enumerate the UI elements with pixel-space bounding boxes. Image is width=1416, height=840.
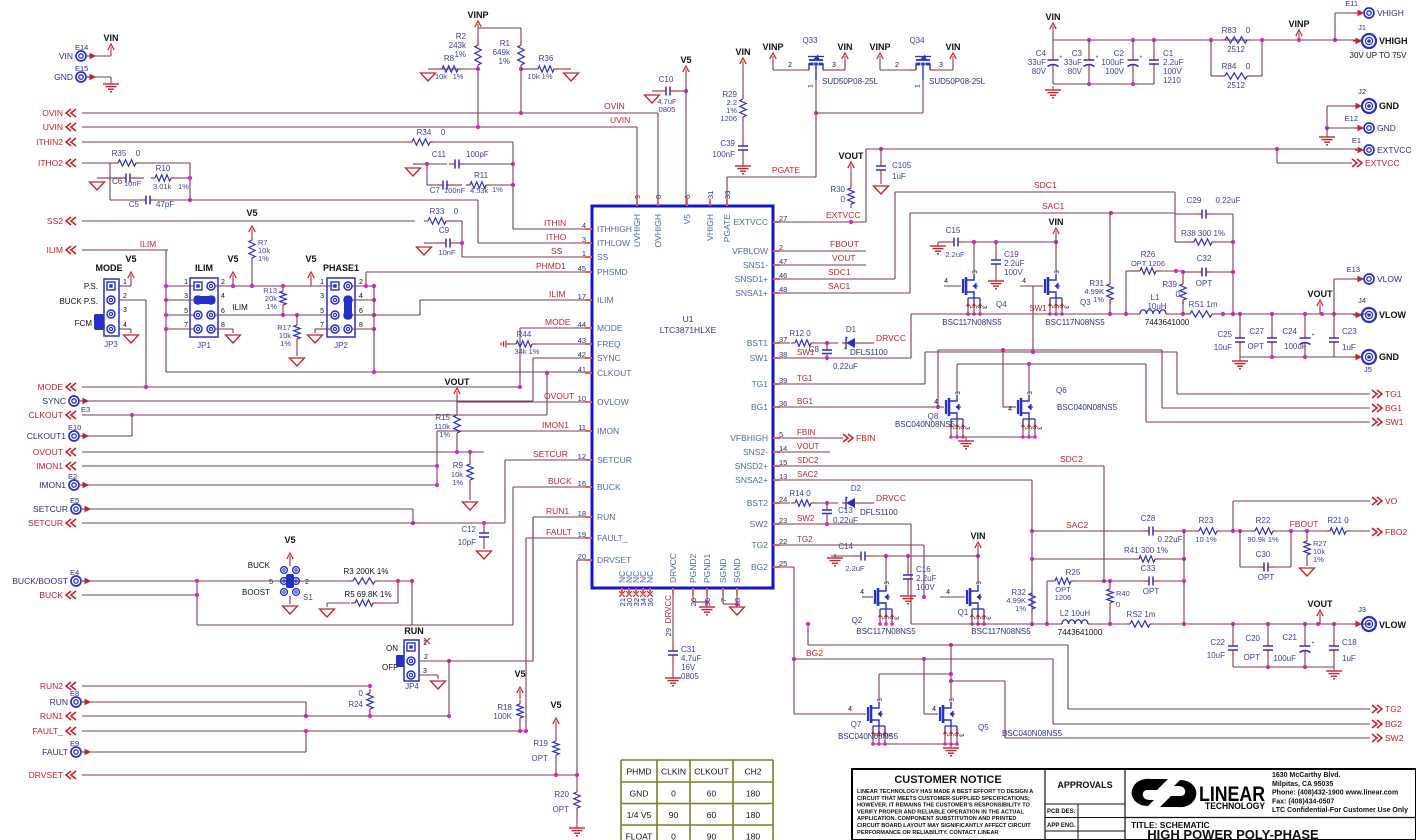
svg-text:BST1: BST1 <box>747 338 769 348</box>
svg-text:CH2: CH2 <box>744 767 761 777</box>
svg-text:BSC117N08NS5: BSC117N08NS5 <box>856 627 916 636</box>
svg-text:C30: C30 <box>1256 550 1271 559</box>
svg-text:2: 2 <box>424 654 428 661</box>
svg-text:100V: 100V <box>1163 67 1182 76</box>
svg-text:FBO2: FBO2 <box>1385 527 1407 537</box>
svg-text:VIN: VIN <box>1045 12 1060 22</box>
svg-text:BSC117N08NS5: BSC117N08NS5 <box>942 318 1002 327</box>
svg-text:7443641000: 7443641000 <box>1145 318 1190 327</box>
svg-text:V5: V5 <box>682 214 692 225</box>
svg-text:OPT: OPT <box>1248 342 1265 351</box>
svg-text:L2 10uH: L2 10uH <box>1060 609 1090 618</box>
svg-text:BUCK: BUCK <box>39 590 63 600</box>
svg-text:0: 0 <box>441 128 446 137</box>
svg-text:TG1: TG1 <box>751 379 768 389</box>
svg-text:C21: C21 <box>1282 633 1297 642</box>
svg-text:SS: SS <box>597 252 609 262</box>
svg-text:30V UP TO 75V: 30V UP TO 75V <box>1350 51 1408 60</box>
svg-text:ITHIN: ITHIN <box>544 218 566 228</box>
svg-text:Q1: Q1 <box>958 608 969 617</box>
svg-text:C9: C9 <box>439 226 450 235</box>
svg-text:FLOAT: FLOAT <box>626 832 653 840</box>
svg-text:SS2: SS2 <box>47 216 63 226</box>
svg-text:3: 3 <box>320 293 324 300</box>
svg-text:V5: V5 <box>305 254 316 264</box>
svg-text:P.S.: P.S. <box>84 282 98 291</box>
svg-text:RUN: RUN <box>50 697 68 707</box>
svg-text:R36: R36 <box>539 54 554 63</box>
svg-text:VHIGH: VHIGH <box>1379 36 1408 46</box>
svg-text:BG2: BG2 <box>806 648 823 658</box>
svg-text:0: 0 <box>671 789 676 799</box>
svg-text:0.22uF: 0.22uF <box>1216 196 1241 205</box>
svg-text:EXTVCC: EXTVCC <box>734 217 768 227</box>
svg-text:1%: 1% <box>439 430 450 439</box>
svg-text:RUN: RUN <box>404 626 424 636</box>
svg-text:1: 1 <box>808 84 815 88</box>
svg-text:SNS1-: SNS1- <box>743 260 768 270</box>
svg-text:100V: 100V <box>1004 268 1023 277</box>
svg-text:Fax: (408)434-0507: Fax: (408)434-0507 <box>1272 798 1334 805</box>
svg-text:Q4: Q4 <box>996 300 1007 309</box>
svg-text:SGND: SGND <box>718 558 728 583</box>
svg-text:180: 180 <box>746 810 760 820</box>
svg-text:BSC117N08NS5: BSC117N08NS5 <box>1045 318 1105 327</box>
svg-text:41: 41 <box>578 365 586 374</box>
svg-text:0: 0 <box>1176 290 1181 299</box>
svg-text:PERFORMANCE OR RELIABILITY. C: PERFORMANCE OR RELIABILITY. CONTACT LINE… <box>857 830 999 836</box>
svg-text:10k: 10k <box>435 72 447 81</box>
svg-text:VOUT: VOUT <box>1307 289 1333 299</box>
svg-text:4: 4 <box>944 278 948 285</box>
svg-text:NC: NC <box>645 571 655 583</box>
svg-text:VINP: VINP <box>467 10 488 20</box>
svg-text:100pF: 100pF <box>466 150 489 159</box>
svg-text:RS2 1m: RS2 1m <box>1127 610 1156 619</box>
svg-text:+: + <box>1312 641 1315 647</box>
svg-text:DRVCC: DRVCC <box>664 595 673 624</box>
svg-text:2: 2 <box>123 293 127 300</box>
svg-text:PHASE1: PHASE1 <box>323 263 359 273</box>
svg-text:5: 5 <box>320 308 324 315</box>
svg-text:0: 0 <box>136 149 141 158</box>
svg-text:R14 0: R14 0 <box>789 489 811 498</box>
svg-text:0.22uF: 0.22uF <box>833 362 858 371</box>
svg-text:FAULT_: FAULT_ <box>597 533 628 543</box>
svg-text:8: 8 <box>221 322 225 329</box>
svg-text:SW2: SW2 <box>750 519 769 529</box>
svg-text:+: + <box>1140 55 1143 61</box>
svg-text:BOOST: BOOST <box>242 588 270 597</box>
svg-text:3.01k: 3.01k <box>153 182 172 191</box>
svg-text:33uF: 33uF <box>1064 58 1082 67</box>
svg-text:CLKOUT: CLKOUT <box>29 410 63 420</box>
svg-text:RUN2: RUN2 <box>40 681 63 691</box>
svg-text:90: 90 <box>669 810 679 820</box>
svg-text:60: 60 <box>707 789 717 799</box>
svg-text:4.7uF: 4.7uF <box>681 654 702 663</box>
svg-text:SW1: SW1 <box>750 353 769 363</box>
svg-text:1%: 1% <box>258 254 269 263</box>
svg-text:1630 McCarthy Blvd.: 1630 McCarthy Blvd. <box>1272 772 1341 779</box>
svg-text:IMON1: IMON1 <box>36 461 63 471</box>
svg-text:VHIGH: VHIGH <box>705 214 715 241</box>
svg-text:2.2uF: 2.2uF <box>945 250 965 259</box>
svg-text:R30: R30 <box>830 185 845 194</box>
svg-text:GND: GND <box>1379 101 1400 111</box>
svg-text:SDC2: SDC2 <box>1060 454 1083 464</box>
svg-text:VINP: VINP <box>1288 19 1309 29</box>
svg-text:L1: L1 <box>1151 293 1160 302</box>
svg-text:V5: V5 <box>246 208 257 218</box>
svg-text:1%: 1% <box>498 57 510 66</box>
svg-text:VIN: VIN <box>103 33 118 43</box>
svg-text:C2: C2 <box>1114 49 1125 58</box>
svg-text:C18: C18 <box>1342 638 1357 647</box>
svg-text:BG1: BG1 <box>1385 403 1402 413</box>
svg-text:Q5: Q5 <box>978 723 989 732</box>
svg-text:BG1: BG1 <box>751 402 768 412</box>
svg-text:100K: 100K <box>493 712 512 721</box>
svg-text:R12 0: R12 0 <box>789 329 811 338</box>
svg-text:BUCK: BUCK <box>548 476 572 486</box>
svg-text:E15: E15 <box>75 64 88 73</box>
svg-text:1%: 1% <box>452 478 463 487</box>
svg-text:PGND2: PGND2 <box>688 553 698 583</box>
svg-text:LTC3871HLXE: LTC3871HLXE <box>660 325 717 335</box>
svg-text:OVLOW: OVLOW <box>597 397 629 407</box>
svg-text:1uF: 1uF <box>1342 343 1356 352</box>
svg-text:R34: R34 <box>417 128 432 137</box>
svg-text:0: 0 <box>1246 26 1251 35</box>
svg-text:3: 3 <box>123 307 127 314</box>
svg-text:DRVSET: DRVSET <box>597 555 631 565</box>
svg-text:JP1: JP1 <box>197 341 211 350</box>
svg-text:D1: D1 <box>846 325 857 334</box>
svg-text:1%: 1% <box>454 50 466 59</box>
svg-text:DFLS1100: DFLS1100 <box>860 508 898 517</box>
svg-text:C11: C11 <box>432 150 447 159</box>
svg-text:3: 3 <box>423 668 427 675</box>
svg-text:PGATE: PGATE <box>722 214 732 243</box>
svg-text:VIN: VIN <box>735 47 750 57</box>
svg-text:100nF: 100nF <box>712 150 735 159</box>
svg-text:DRVCC: DRVCC <box>876 493 906 503</box>
svg-text:VOUT: VOUT <box>832 253 856 263</box>
svg-text:EXTVCC: EXTVCC <box>1365 158 1399 168</box>
svg-text:SUD50P08-25L: SUD50P08-25L <box>929 77 986 86</box>
svg-text:2: 2 <box>359 279 363 286</box>
svg-text:47pF: 47pF <box>156 200 174 209</box>
svg-text:2.2uF: 2.2uF <box>1163 58 1184 67</box>
svg-text:C15: C15 <box>946 226 961 235</box>
svg-text:0: 0 <box>454 207 459 216</box>
svg-text:C29: C29 <box>1187 196 1202 205</box>
svg-text:10nF: 10nF <box>438 248 456 257</box>
svg-text:31: 31 <box>706 191 715 199</box>
svg-text:C16: C16 <box>916 565 931 574</box>
svg-text:29: 29 <box>664 628 673 636</box>
svg-text:TG1: TG1 <box>1385 389 1402 399</box>
svg-text:R3 200K 1%: R3 200K 1% <box>344 567 389 576</box>
svg-text:VIN: VIN <box>837 42 852 52</box>
svg-text:E12: E12 <box>1345 114 1358 123</box>
svg-text:PGND1: PGND1 <box>702 553 712 583</box>
svg-text:TG2: TG2 <box>797 535 813 544</box>
svg-text:4: 4 <box>1008 406 1012 413</box>
svg-text:100uF: 100uF <box>1101 58 1124 67</box>
svg-text:1: 1 <box>123 279 127 286</box>
svg-text:1%: 1% <box>266 302 277 311</box>
svg-text:C39: C39 <box>720 139 735 148</box>
svg-text:SW2: SW2 <box>797 514 815 523</box>
svg-text:0: 0 <box>359 689 364 698</box>
svg-text:SDC2: SDC2 <box>797 456 819 465</box>
svg-text:1%: 1% <box>1313 555 1324 564</box>
svg-text:0: 0 <box>1246 62 1251 71</box>
svg-text:1: 1 <box>184 279 188 286</box>
svg-text:1206: 1206 <box>720 114 737 123</box>
svg-text:R21 0: R21 0 <box>1327 516 1349 525</box>
svg-text:10uF: 10uF <box>1214 343 1232 352</box>
svg-text:R41 300 1%: R41 300 1% <box>1124 546 1168 555</box>
svg-text:VIN: VIN <box>59 51 73 61</box>
svg-text:U1: U1 <box>683 314 694 324</box>
svg-text:C6: C6 <box>112 177 123 186</box>
svg-text:SETCUR: SETCUR <box>28 518 63 528</box>
svg-text:E13: E13 <box>1347 265 1360 274</box>
svg-text:E4: E4 <box>70 568 79 577</box>
svg-text:7443641000: 7443641000 <box>1058 628 1103 637</box>
svg-text:MODE: MODE <box>597 323 623 333</box>
svg-text:C27: C27 <box>1249 327 1264 336</box>
svg-text:R1: R1 <box>500 39 511 48</box>
svg-text:R20: R20 <box>554 790 569 799</box>
svg-text:PHMD: PHMD <box>626 767 651 777</box>
svg-text:TG2: TG2 <box>751 540 768 550</box>
svg-text:SW2: SW2 <box>1385 733 1404 743</box>
svg-text:R9: R9 <box>453 461 464 470</box>
svg-text:BUCK: BUCK <box>597 482 621 492</box>
svg-text:36: 36 <box>646 598 655 606</box>
svg-text:EXTVCC: EXTVCC <box>1377 145 1411 155</box>
svg-text:OVIN: OVIN <box>42 108 63 118</box>
svg-text:DRVSET: DRVSET <box>29 770 63 780</box>
svg-text:R10: R10 <box>156 164 171 173</box>
svg-text:C7: C7 <box>430 186 441 195</box>
svg-text:80V: 80V <box>1068 67 1083 76</box>
svg-text:OPT: OPT <box>1258 573 1275 582</box>
svg-text:4.53k: 4.53k <box>470 186 489 195</box>
svg-text:2: 2 <box>221 279 225 286</box>
svg-text:Q2: Q2 <box>852 616 863 625</box>
svg-text:C28: C28 <box>1141 514 1156 523</box>
svg-text:ILIM: ILIM <box>549 289 566 299</box>
svg-text:OVIN: OVIN <box>604 101 625 111</box>
svg-text:BSC040N08NS5: BSC040N08NS5 <box>838 732 899 741</box>
svg-text:C20: C20 <box>1245 634 1260 643</box>
svg-text:OPT: OPT <box>1244 653 1261 662</box>
svg-text:R19: R19 <box>533 739 548 748</box>
svg-text:SUD50P08-25L: SUD50P08-25L <box>822 77 879 86</box>
svg-text:MODE: MODE <box>545 317 571 327</box>
svg-text:VINP: VINP <box>869 42 890 52</box>
svg-text:R39: R39 <box>1162 280 1177 289</box>
svg-text:2: 2 <box>305 579 309 586</box>
svg-text:90: 90 <box>707 832 717 840</box>
svg-text:OPT: OPT <box>532 754 549 763</box>
svg-text:UVIN: UVIN <box>610 115 630 125</box>
svg-text:4: 4 <box>932 706 936 713</box>
svg-text:SNSD2+: SNSD2+ <box>735 461 768 471</box>
svg-text:IMON1: IMON1 <box>542 420 569 430</box>
svg-text:C105: C105 <box>892 161 912 170</box>
svg-text:BSC117N08NS5: BSC117N08NS5 <box>971 627 1031 636</box>
svg-text:SNS2-: SNS2- <box>743 447 768 457</box>
svg-text:SS: SS <box>551 246 563 256</box>
svg-text:6: 6 <box>359 308 363 315</box>
svg-text:Q34: Q34 <box>909 36 925 45</box>
svg-text:1: 1 <box>915 84 922 88</box>
svg-text:ITHLOW: ITHLOW <box>597 238 630 248</box>
svg-text:4: 4 <box>934 399 938 406</box>
svg-text:GND: GND <box>1379 352 1400 362</box>
svg-text:10uH: 10uH <box>1147 302 1166 311</box>
svg-text:VLOW: VLOW <box>1379 620 1407 630</box>
svg-text:1/4 V5: 1/4 V5 <box>627 810 652 820</box>
svg-text:DRVCC: DRVCC <box>876 333 906 343</box>
svg-text:33uF: 33uF <box>1028 58 1046 67</box>
svg-text:CIRCUIT THAT MEETS CUSTOMER-SU: CIRCUIT THAT MEETS CUSTOMER-SUPPLIED SPE… <box>857 796 1030 802</box>
svg-text:OFF: OFF <box>382 663 398 672</box>
svg-text:E14: E14 <box>75 43 88 52</box>
svg-text:243k: 243k <box>449 41 467 50</box>
svg-text:BG2: BG2 <box>751 562 768 572</box>
svg-text:BG2: BG2 <box>1385 719 1402 729</box>
svg-text:V5: V5 <box>227 254 238 264</box>
svg-text:C32: C32 <box>1197 254 1212 263</box>
svg-text:649k: 649k <box>493 48 511 57</box>
svg-text:SW1: SW1 <box>797 348 815 357</box>
svg-text:4: 4 <box>1022 278 1026 285</box>
svg-text:FREQ: FREQ <box>597 339 621 349</box>
svg-text:IMON1: IMON1 <box>39 480 66 490</box>
svg-text:10 1%: 10 1% <box>1195 535 1217 544</box>
svg-text:CLKIN: CLKIN <box>661 767 686 777</box>
svg-text:RUN: RUN <box>597 512 615 522</box>
svg-text:60: 60 <box>707 810 717 820</box>
svg-text:ITHO: ITHO <box>546 232 567 242</box>
svg-text:80V: 80V <box>1032 67 1047 76</box>
svg-text:OPT: OPT <box>1143 587 1160 596</box>
svg-text:UVHIGH: UVHIGH <box>632 214 642 247</box>
svg-text:C24: C24 <box>1282 327 1297 336</box>
svg-text:J3: J3 <box>1358 605 1366 614</box>
svg-text:VIN: VIN <box>970 531 985 541</box>
svg-text:E5: E5 <box>70 496 79 505</box>
svg-text:OVOUT: OVOUT <box>544 391 574 401</box>
svg-text:VHIGH: VHIGH <box>1377 8 1404 18</box>
svg-text:GND: GND <box>630 789 649 799</box>
svg-text:C14: C14 <box>838 542 853 551</box>
svg-text:C23: C23 <box>1342 327 1357 336</box>
svg-text:R38 300 1%: R38 300 1% <box>1181 229 1225 238</box>
svg-text:8: 8 <box>359 322 363 329</box>
svg-text:ON: ON <box>386 644 398 653</box>
svg-text:RUN1: RUN1 <box>546 506 569 516</box>
svg-text:LTC Confidential-For Customer: LTC Confidential-For Customer Use Only <box>1272 807 1408 814</box>
svg-text:SYNC: SYNC <box>42 396 66 406</box>
svg-text:+: + <box>1060 55 1063 61</box>
svg-text:E8: E8 <box>70 689 79 698</box>
svg-text:VO: VO <box>1385 496 1398 506</box>
svg-text:CLKOUT1: CLKOUT1 <box>27 431 66 441</box>
svg-text:BUCK/BOOST: BUCK/BOOST <box>12 576 68 586</box>
svg-text:CLKOUT: CLKOUT <box>597 368 631 378</box>
svg-text:BSC040N08NS5: BSC040N08NS5 <box>1002 729 1063 738</box>
svg-text:R33: R33 <box>430 207 445 216</box>
svg-text:2: 2 <box>895 62 899 69</box>
svg-text:E10: E10 <box>68 423 81 432</box>
svg-text:PCB DES.: PCB DES. <box>1047 809 1076 815</box>
svg-text:BSC040N08NS5: BSC040N08NS5 <box>1057 403 1118 412</box>
svg-text:V5: V5 <box>284 535 295 545</box>
svg-text:R5 69.8K 1%: R5 69.8K 1% <box>344 590 391 599</box>
svg-text:BG1: BG1 <box>797 397 814 406</box>
svg-text:3: 3 <box>832 62 836 69</box>
svg-text:SDC1: SDC1 <box>1034 180 1057 190</box>
svg-text:C22: C22 <box>1210 638 1225 647</box>
svg-text:C3: C3 <box>1072 49 1083 58</box>
svg-text:APPROVALS: APPROVALS <box>1057 780 1112 790</box>
svg-text:2512: 2512 <box>1227 81 1245 90</box>
svg-text:FCM: FCM <box>75 319 93 328</box>
svg-text:EXTVCC: EXTVCC <box>826 210 860 220</box>
svg-text:DFLS1100: DFLS1100 <box>850 348 888 357</box>
svg-text:VOUT: VOUT <box>797 442 819 451</box>
svg-text:1%: 1% <box>1093 295 1104 304</box>
svg-text:R11: R11 <box>474 171 489 180</box>
svg-text:VIN: VIN <box>945 42 960 52</box>
svg-text:R24: R24 <box>348 700 363 709</box>
svg-text:RS1 1m: RS1 1m <box>1189 300 1218 309</box>
svg-text:TECHNOLOGY: TECHNOLOGY <box>1205 801 1266 812</box>
svg-text:C10: C10 <box>659 75 674 84</box>
svg-text:R15: R15 <box>435 413 450 422</box>
svg-text:4: 4 <box>221 293 225 300</box>
svg-text:BUCK P.S.: BUCK P.S. <box>59 297 98 306</box>
svg-text:180: 180 <box>746 832 760 840</box>
svg-text:Q33: Q33 <box>802 36 818 45</box>
svg-text:GND: GND <box>1377 123 1396 133</box>
svg-text:OVOUT: OVOUT <box>33 447 63 457</box>
svg-text:4: 4 <box>946 589 950 596</box>
svg-text:0805: 0805 <box>659 105 676 114</box>
svg-text:BUCK: BUCK <box>248 561 271 570</box>
svg-text:100uF: 100uF <box>1273 654 1296 663</box>
svg-text:1%: 1% <box>453 72 464 81</box>
svg-text:R83: R83 <box>1222 26 1237 35</box>
svg-text:180: 180 <box>746 789 760 799</box>
svg-text:1uF: 1uF <box>892 172 906 181</box>
svg-text:10uF: 10uF <box>1207 651 1225 660</box>
svg-text:APPLICATION. COMPONENT SUBSTI: APPLICATION. COMPONENT SUBSTITUTION AND … <box>857 816 1016 822</box>
svg-text:SW1: SW1 <box>1029 304 1047 313</box>
svg-text:R2: R2 <box>456 32 467 41</box>
svg-text:Q7: Q7 <box>851 720 862 729</box>
svg-text:R26: R26 <box>1141 250 1156 259</box>
svg-text:VOUT: VOUT <box>1307 599 1333 609</box>
